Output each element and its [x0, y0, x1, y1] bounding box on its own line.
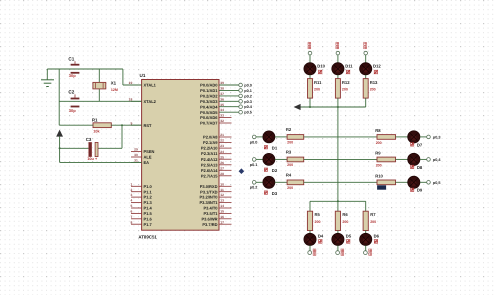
- pin XTAL2 (18): [129, 97, 157, 104]
- svg-text:23: 23: [220, 144, 224, 148]
- svg-text:10: 10: [220, 182, 224, 186]
- terminal above D12: [364, 42, 368, 54]
- svg-text:p0.3: p0.3: [433, 135, 441, 139]
- svg-text:P1.7: P1.7: [144, 222, 153, 227]
- wire p0.2 to D3: [256, 181, 263, 183]
- svg-text:X1: X1: [111, 81, 117, 86]
- wire row 1 middle: [304, 136, 377, 138]
- pin P1.3 (4): [130, 199, 152, 206]
- svg-text:17: 17: [220, 220, 224, 224]
- pin P2.1/A9 (22): [203, 139, 231, 146]
- svg-text:C2: C2: [68, 90, 74, 95]
- svg-text:P1.4: P1.4: [144, 206, 153, 211]
- terminal p0.4: [239, 105, 253, 109]
- pin P3.5/T1 (15): [203, 210, 231, 217]
- svg-text:P0.4/AD4: P0.4/AD4: [200, 104, 218, 109]
- svg-text:6: 6: [130, 210, 132, 214]
- svg-text:D2: D2: [272, 168, 278, 173]
- wire D6 to bottom terminal: [365, 246, 367, 251]
- wire row 2 middle: [304, 158, 377, 160]
- wire D10 to R11: [309, 75, 311, 79]
- terminal p0.4: [427, 158, 442, 162]
- svg-text:P3.3/INT1: P3.3/INT1: [199, 200, 218, 205]
- capacitor C2: [68, 90, 79, 113]
- svg-text:P2.4/A12: P2.4/A12: [201, 157, 218, 162]
- svg-text:P3.6/WR: P3.6/WR: [201, 216, 217, 221]
- resistor R5: [307, 211, 320, 230]
- svg-text:R9: R9: [375, 150, 381, 155]
- svg-text:p0.5: p0.5: [433, 181, 441, 185]
- wire R9 to D8: [396, 158, 408, 160]
- pin P0.6/AD6 (33): [200, 114, 231, 121]
- wire R10 to D9: [396, 181, 408, 183]
- svg-text:p0.4: p0.4: [433, 158, 441, 162]
- pin P3.4/T0 (14): [203, 204, 231, 211]
- resistor R10: [375, 173, 395, 189]
- svg-text:P3.7/RD: P3.7/RD: [202, 222, 217, 227]
- resistor R12: [335, 79, 350, 99]
- svg-text:R6: R6: [342, 212, 348, 217]
- ground: [41, 69, 54, 87]
- svg-text:8: 8: [130, 220, 132, 224]
- svg-text:p0.0: p0.0: [250, 140, 258, 144]
- pin P1.0 (1): [130, 182, 152, 189]
- svg-text:p0.1: p0.1: [250, 163, 258, 167]
- led D6: [360, 233, 380, 245]
- wire D12 to R13: [365, 75, 367, 79]
- wire D7 to p0.3: [420, 136, 427, 138]
- resistor R4: [286, 173, 304, 190]
- wire R11 to bus: [309, 98, 311, 107]
- pin ALE (30): [131, 153, 152, 160]
- pin XTAL1 (19): [129, 81, 157, 88]
- svg-text:15: 15: [220, 210, 224, 214]
- wire R5 to D4: [309, 231, 311, 234]
- svg-text:29: 29: [134, 148, 138, 152]
- wire row 3 middle: [304, 181, 377, 183]
- svg-text:200: 200: [376, 141, 382, 145]
- pin PSEN (29): [131, 148, 155, 155]
- svg-text:R12: R12: [342, 80, 350, 85]
- svg-text:200: 200: [370, 88, 376, 92]
- wire bottom distribution: [310, 200, 366, 211]
- svg-text:32: 32: [220, 119, 224, 123]
- svg-text:P1.6: P1.6: [144, 216, 153, 221]
- wire R6 to D5: [337, 231, 339, 234]
- svg-text:P1.5: P1.5: [144, 211, 153, 216]
- wire D5 to bottom terminal: [337, 246, 339, 251]
- svg-text:22: 22: [220, 139, 224, 143]
- svg-text:R11: R11: [314, 80, 322, 85]
- svg-text:D7: D7: [417, 142, 423, 147]
- svg-text:R3: R3: [286, 150, 292, 155]
- terminal p0.3: [427, 135, 441, 139]
- terminal p0.0: [250, 135, 258, 144]
- svg-text:200: 200: [287, 186, 293, 190]
- svg-text:38: 38: [220, 87, 224, 91]
- terminal below D6: [364, 249, 372, 256]
- svg-text:p0.0: p0.0: [244, 84, 252, 88]
- led D9: [408, 176, 423, 193]
- svg-text:P3.4/T0: P3.4/T0: [203, 206, 218, 211]
- led D4: [304, 233, 324, 245]
- svg-text:D11: D11: [345, 63, 353, 68]
- terminal p0.5: [427, 181, 441, 185]
- svg-text:34: 34: [220, 108, 224, 112]
- led D10: [304, 63, 326, 75]
- svg-text:36: 36: [220, 97, 224, 101]
- wire D8 to p0.4: [420, 158, 427, 160]
- svg-text:XTAL1: XTAL1: [144, 83, 157, 88]
- svg-text:P0.6/AD6: P0.6/AD6: [200, 115, 218, 120]
- svg-text:XTAL2: XTAL2: [144, 99, 157, 104]
- svg-text:P1.1: P1.1: [144, 189, 153, 194]
- terminal below D4: [308, 249, 316, 256]
- svg-text:P3.5/T1: P3.5/T1: [203, 211, 218, 216]
- capacitor C3: [86, 137, 98, 161]
- wire terminal to D12: [365, 55, 367, 63]
- svg-text:D10: D10: [317, 63, 325, 68]
- wire top bus: [300, 106, 365, 108]
- led D7: [408, 131, 423, 148]
- wire D4 to bottom terminal: [309, 246, 311, 251]
- crystal X1: [93, 69, 118, 101]
- svg-text:P2.5/A13: P2.5/A13: [201, 162, 218, 167]
- terminal p0.2: [250, 181, 258, 190]
- svg-text:D5: D5: [346, 233, 352, 238]
- wire D1 to R2: [275, 136, 287, 138]
- terminal below D5: [336, 249, 344, 256]
- led D2: [263, 153, 278, 173]
- svg-text:200: 200: [287, 163, 293, 167]
- terminal p0.5: [239, 110, 252, 114]
- svg-text:C1: C1: [68, 57, 74, 62]
- svg-text:200: 200: [342, 88, 348, 92]
- pin P0.3/AD3 (36): [200, 97, 239, 104]
- wire C3 supply: [60, 147, 89, 149]
- svg-text:200: 200: [376, 164, 382, 168]
- svg-text:10u: 10u: [87, 157, 94, 161]
- terminal above D10: [308, 42, 312, 54]
- svg-text:R1: R1: [92, 117, 98, 122]
- pin P3.0/RXD (10): [200, 182, 232, 189]
- pin P1.5 (6): [130, 210, 152, 217]
- svg-text:ALE: ALE: [144, 155, 152, 160]
- svg-text:U1: U1: [140, 73, 146, 78]
- svg-text:25: 25: [220, 155, 224, 159]
- svg-text:R13: R13: [370, 80, 378, 85]
- wire center column drop: [337, 107, 339, 201]
- svg-text:D12: D12: [373, 63, 381, 68]
- pin P0.0/AD0 (39): [200, 81, 239, 88]
- svg-text:AT89C51: AT89C51: [138, 234, 157, 239]
- svg-text:EA: EA: [144, 160, 150, 165]
- wire XTAL1 top rail: [47, 69, 141, 85]
- svg-text:P0.5/AD5: P0.5/AD5: [200, 110, 218, 115]
- svg-text:37: 37: [220, 92, 224, 96]
- svg-text:18: 18: [129, 97, 133, 101]
- wire D2 to R3: [275, 158, 287, 160]
- svg-text:28: 28: [220, 172, 224, 176]
- pin P3.7/RD (17): [202, 220, 231, 227]
- wire D9 to p0.5: [420, 181, 427, 183]
- wire XTAL2 rail: [59, 100, 141, 102]
- svg-text:D3: D3: [272, 191, 278, 196]
- svg-text:P2.1/A9: P2.1/A9: [203, 140, 218, 145]
- svg-text:12: 12: [220, 193, 224, 197]
- svg-text:9: 9: [130, 121, 132, 125]
- svg-text:p0.3: p0.3: [244, 100, 252, 104]
- svg-text:p0.4: p0.4: [244, 105, 252, 109]
- led D12: [360, 63, 382, 75]
- pin P2.2/A10 (23): [201, 144, 232, 151]
- svg-text:5: 5: [130, 204, 132, 208]
- terminal p0.2: [239, 94, 252, 98]
- pin P0.1/AD1 (38): [200, 87, 239, 94]
- resistor R8: [375, 128, 395, 145]
- svg-text:D9: D9: [417, 188, 423, 193]
- svg-text:24: 24: [220, 150, 224, 154]
- resistor R11: [308, 79, 323, 99]
- svg-text:p0.1: p0.1: [244, 89, 252, 93]
- svg-text:30p: 30p: [69, 108, 76, 113]
- svg-text:35: 35: [220, 103, 224, 107]
- pin EA (31): [131, 159, 149, 166]
- pin P2.4/A12 (25): [201, 155, 232, 162]
- resistor R9: [375, 150, 395, 167]
- svg-text:13: 13: [220, 199, 224, 203]
- svg-text:P1.0: P1.0: [144, 184, 153, 189]
- wire D11 to R12: [337, 75, 339, 79]
- pin P1.6 (7): [130, 215, 152, 222]
- terminal above D11: [336, 42, 340, 54]
- svg-text:11: 11: [220, 188, 224, 192]
- wire terminal to D10: [309, 55, 311, 63]
- svg-text:14: 14: [220, 204, 224, 208]
- wire RST net: [59, 124, 141, 148]
- svg-text:3: 3: [130, 193, 132, 197]
- resistor R7: [363, 211, 376, 230]
- power terminal +5V: [56, 130, 63, 163]
- svg-text:P0.2/AD2: P0.2/AD2: [200, 94, 218, 99]
- svg-text:7: 7: [130, 215, 132, 219]
- pin P2.5/A13 (26): [201, 161, 232, 168]
- pin P1.1 (2): [130, 188, 152, 195]
- svg-text:30p: 30p: [69, 73, 76, 78]
- resistor R6: [335, 211, 348, 230]
- svg-text:p0.2: p0.2: [244, 94, 252, 98]
- svg-text:P1.3: P1.3: [144, 200, 153, 205]
- svg-text:200: 200: [287, 141, 293, 145]
- pin P0.2/AD2 (37): [200, 92, 239, 99]
- svg-text:200: 200: [315, 220, 321, 224]
- wire D3 to R4: [275, 181, 287, 183]
- wire terminal to D11: [337, 55, 339, 63]
- svg-text:26: 26: [220, 161, 224, 165]
- wire p0.1 to D2: [256, 158, 263, 160]
- svg-text:10k: 10k: [93, 129, 100, 133]
- pin P0.4/AD4 (35): [200, 103, 239, 110]
- led D1: [263, 131, 278, 151]
- svg-text:19: 19: [129, 81, 133, 85]
- svg-text:12M: 12M: [111, 88, 118, 92]
- svg-text:R7: R7: [370, 212, 376, 217]
- svg-text:P0.0/AD0: P0.0/AD0: [200, 83, 218, 88]
- pin P2.3/A11 (24): [201, 150, 231, 156]
- svg-text:30: 30: [134, 153, 138, 157]
- svg-text:P0.1/AD1: P0.1/AD1: [200, 88, 218, 93]
- pin P1.2 (3): [130, 193, 152, 200]
- svg-text:D8: D8: [417, 165, 423, 170]
- svg-text:p0.2: p0.2: [250, 186, 258, 190]
- led D11: [332, 63, 354, 75]
- svg-text:R4: R4: [286, 173, 292, 178]
- svg-text:P2.2/A10: P2.2/A10: [201, 146, 218, 151]
- svg-text:P3.0/RXD: P3.0/RXD: [200, 184, 218, 189]
- wire p0.0 to D1: [256, 136, 263, 138]
- svg-text:R2: R2: [286, 127, 292, 132]
- wire R7 to D6: [365, 231, 367, 234]
- svg-text:D4: D4: [318, 233, 324, 238]
- pin P3.1/TXD (11): [200, 188, 231, 195]
- svg-text:200: 200: [314, 88, 320, 92]
- svg-text:C3: C3: [86, 137, 92, 142]
- svg-text:16: 16: [220, 215, 224, 219]
- svg-text:p0.5: p0.5: [244, 111, 252, 115]
- led D5: [332, 233, 352, 245]
- svg-text:200: 200: [342, 220, 348, 224]
- svg-text:27: 27: [220, 166, 224, 170]
- pin P2.6/A14 (27): [201, 166, 232, 173]
- svg-text:D1: D1: [272, 146, 278, 151]
- marker (blue diamond): [239, 168, 245, 174]
- svg-text:D6: D6: [374, 233, 380, 238]
- pin P3.3/INT1 (13): [199, 199, 231, 206]
- mcu U1 AT89C51: [138, 73, 219, 239]
- svg-text:31: 31: [134, 159, 138, 163]
- svg-text:33: 33: [220, 114, 224, 118]
- pin RST (9): [130, 121, 152, 128]
- svg-text:R10: R10: [375, 173, 383, 178]
- svg-text:P2.7/A15: P2.7/A15: [201, 173, 218, 178]
- terminal p0.1: [239, 89, 252, 93]
- pin P2.7/A15 (28): [201, 172, 232, 179]
- svg-text:P3.2/INT0: P3.2/INT0: [199, 195, 218, 200]
- resistor R13: [363, 79, 378, 99]
- svg-text:4: 4: [130, 199, 132, 203]
- resistor R3: [286, 150, 304, 167]
- svg-text:R8: R8: [375, 128, 381, 133]
- pin P1.4 (5): [130, 204, 152, 211]
- svg-text:39: 39: [220, 81, 224, 85]
- svg-text:P2.0/A8: P2.0/A8: [203, 135, 218, 140]
- led D8: [408, 153, 423, 170]
- led D3: [263, 176, 278, 196]
- power terminal (left arrow): [294, 104, 301, 110]
- pin P1.7 (8): [130, 220, 152, 227]
- terminal p0.0: [239, 83, 252, 87]
- svg-text:P3.1/TXD: P3.1/TXD: [200, 189, 217, 194]
- svg-text:2: 2: [130, 188, 132, 192]
- svg-text:R5: R5: [315, 212, 321, 217]
- wire left ground rail: [58, 69, 60, 125]
- capacitor C1: [68, 57, 79, 79]
- wire R12 to bus: [337, 98, 339, 107]
- svg-text:P2.3/A11: P2.3/A11: [201, 151, 218, 156]
- svg-text:P1.2: P1.2: [144, 195, 153, 200]
- svg-text:21: 21: [220, 133, 224, 137]
- svg-text:P0.3/AD3: P0.3/AD3: [200, 99, 218, 104]
- wire R13 to bus: [365, 98, 367, 107]
- pin P0.5/AD5 (34): [200, 108, 239, 115]
- wire EA net: [60, 161, 142, 163]
- pin P3.2/INT0 (12): [199, 193, 231, 200]
- svg-text:200: 200: [370, 220, 376, 224]
- svg-text:1: 1: [130, 182, 132, 186]
- svg-text:P2.6/A14: P2.6/A14: [201, 168, 218, 173]
- resistor R1: [92, 117, 111, 133]
- pin P2.0/A8 (21): [203, 133, 231, 140]
- terminal p0.3: [239, 100, 252, 104]
- pin P0.7/AD7 (32): [200, 119, 231, 126]
- svg-text:PSEN: PSEN: [144, 149, 155, 154]
- svg-text:RST: RST: [144, 123, 153, 128]
- svg-text:P0.7/AD7: P0.7/AD7: [200, 121, 218, 126]
- pin P3.6/WR (16): [201, 215, 231, 222]
- terminal p0.1: [250, 158, 258, 167]
- resistor R2: [286, 127, 304, 144]
- wire R8 to D7: [396, 136, 408, 138]
